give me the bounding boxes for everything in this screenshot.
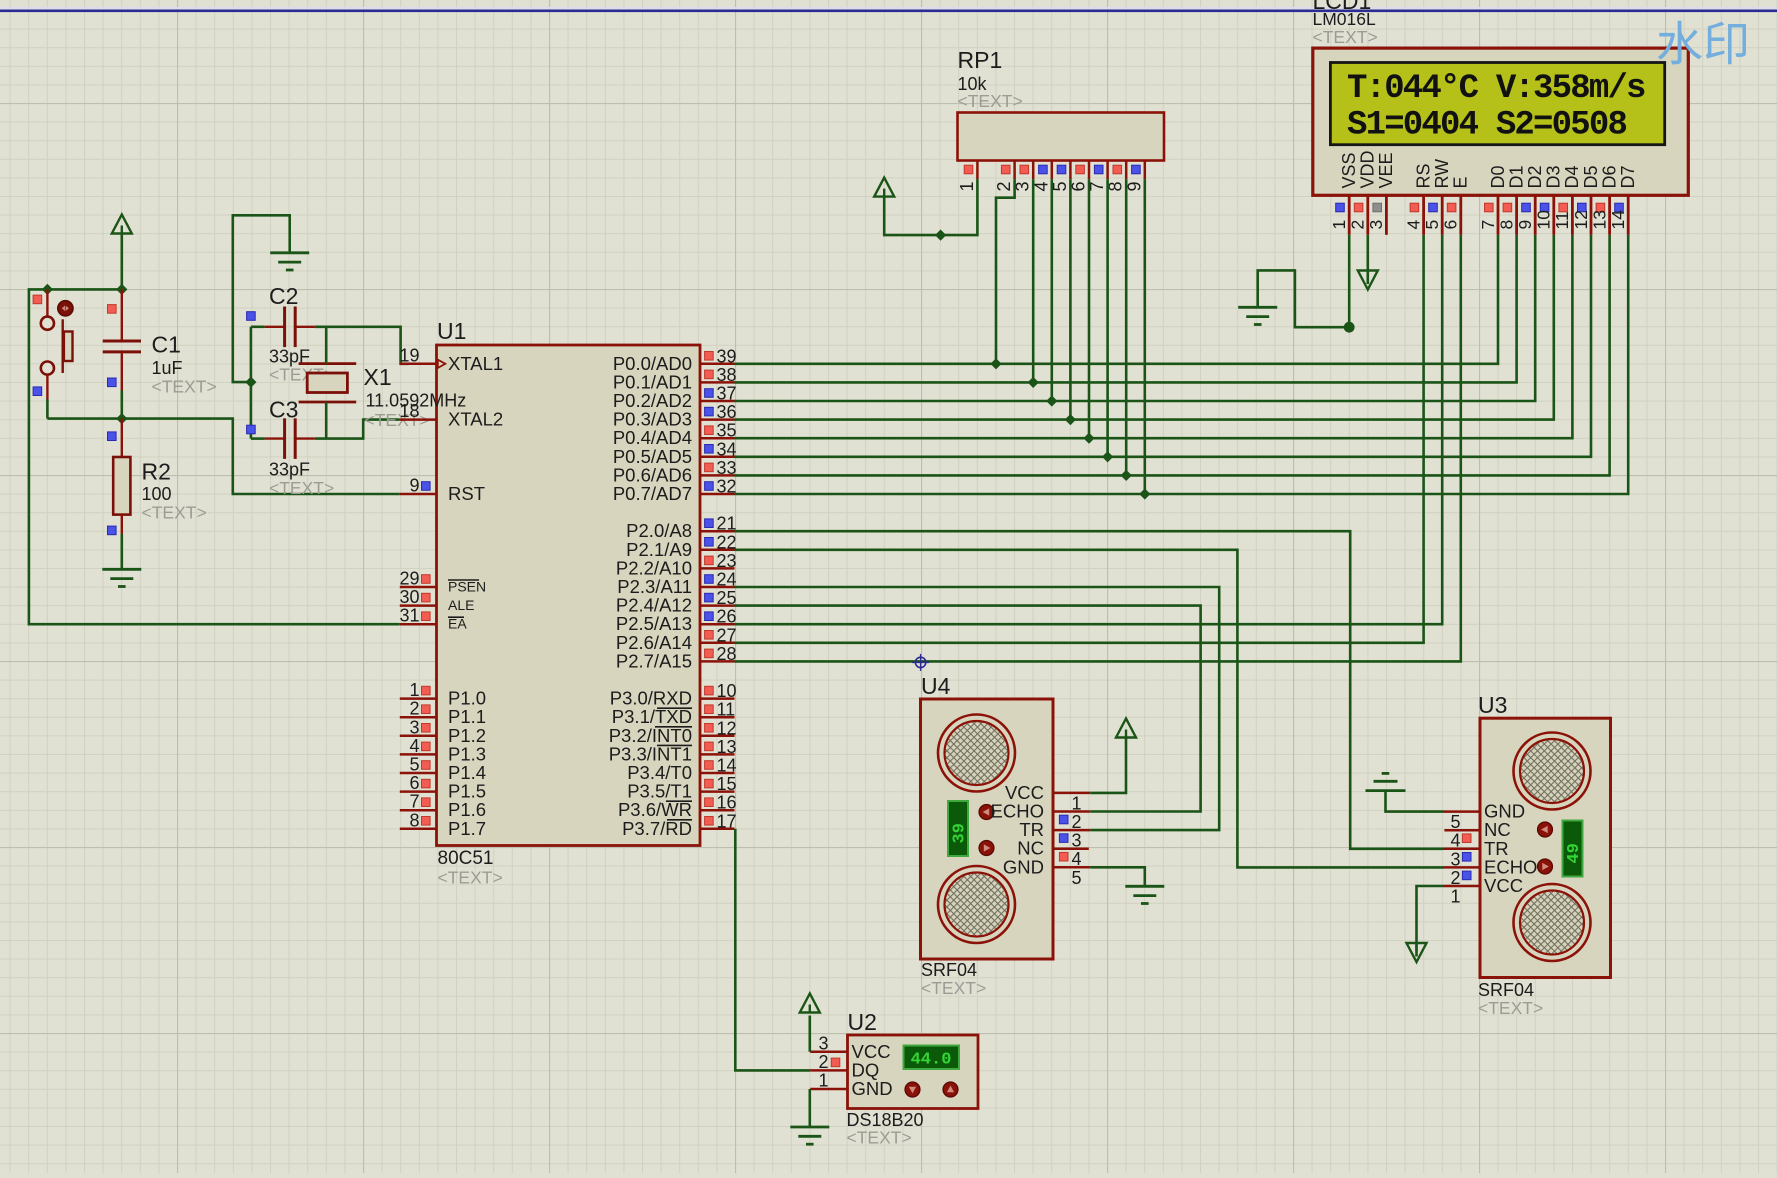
svg-text:1: 1 — [1329, 220, 1349, 230]
svg-text:21: 21 — [717, 514, 737, 534]
svg-text:VCC: VCC — [1484, 875, 1523, 896]
svg-text:X1: X1 — [364, 364, 392, 390]
node junction RP1 pin6 / P0.4 — [1083, 433, 1094, 444]
pin 3 (TR) of U4 — [1019, 819, 1090, 851]
pin 27 (P2.6/A14) of U1 — [616, 625, 737, 653]
origin marker on P2.7 wire — [912, 654, 929, 671]
svg-text:35: 35 — [717, 421, 737, 441]
svg-text:2: 2 — [818, 1052, 828, 1072]
wire RP1 pin8 to P0.6 — [1125, 179, 1128, 475]
wire ground loop (C2/C3 to ground) — [233, 215, 290, 382]
power terminal VCC (top-left) — [112, 215, 132, 234]
svg-text:13: 13 — [1589, 210, 1609, 229]
wire U4 GND to ground — [1090, 867, 1145, 886]
svg-text:VDD: VDD — [1358, 150, 1378, 188]
node junction on VCC wire — [935, 230, 946, 241]
svg-text:1: 1 — [1450, 887, 1460, 907]
svg-text:31: 31 — [399, 606, 419, 626]
pin 9 (RST) of U1 — [400, 476, 485, 505]
pin 1 (P1.0) of U1 — [400, 680, 486, 709]
pin 33 (P0.6/AD6) of U1 — [613, 458, 737, 486]
power terminal VCC (U4) — [1116, 719, 1136, 738]
node junction RP1 pin8 / P0.6 — [1121, 470, 1132, 481]
microcontroller U1 (80C51) body — [437, 345, 701, 846]
wire P0.5 to LCD D5 — [735, 235, 1592, 457]
pin 1 (VCC) of U3 — [1443, 875, 1523, 907]
svg-text:11: 11 — [717, 700, 736, 720]
wire C2 right to XTAL1 — [315, 327, 408, 364]
svg-text:GND: GND — [852, 1078, 893, 1099]
wire P0.4 to LCD D4 — [735, 235, 1573, 438]
pin 5 (GND) of U3 — [1443, 801, 1525, 833]
wire P2.5 to LCD RW — [735, 235, 1443, 624]
svg-text:RP1: RP1 — [958, 47, 1003, 73]
U2 adjust button down — [905, 1082, 920, 1097]
svg-text:RST: RST — [448, 483, 485, 504]
node junction RST rail — [116, 413, 127, 424]
svg-text:1: 1 — [409, 680, 419, 700]
svg-text:15: 15 — [717, 774, 737, 794]
svg-text:8: 8 — [1496, 220, 1516, 230]
wire P2.6 to LCD RS — [735, 235, 1424, 643]
svg-text:XTAL2: XTAL2 — [448, 409, 503, 430]
svg-text:17: 17 — [717, 811, 737, 831]
power terminal VCC (U3, pointing down) — [1407, 943, 1427, 962]
svg-text:16: 16 — [717, 793, 737, 813]
svg-text:3: 3 — [1366, 220, 1386, 230]
pin 6 (E) of LCD1 — [1441, 176, 1471, 234]
pin 21 (P2.0/A8) of U1 — [626, 514, 736, 542]
pin 4 (RS) of LCD1 — [1403, 163, 1433, 234]
pin 10 (D3) of LCD1 — [1534, 165, 1564, 234]
svg-text:12: 12 — [1571, 210, 1591, 229]
pin state square R2 bottom — [108, 526, 117, 535]
svg-text:D0: D0 — [1488, 165, 1508, 188]
pin 17 (P3.7/RD) of U1 — [622, 811, 736, 839]
ground (U2) — [790, 1127, 829, 1144]
pin 1 (GND) of U2 — [810, 1071, 892, 1100]
pin 28 (P2.7/A15) of U1 — [616, 644, 737, 672]
pin 26 (P2.5/A13) of U1 — [616, 607, 737, 635]
U3 distance display 49 — [1563, 821, 1585, 877]
pin 3 (VEE) of LCD1 — [1366, 152, 1396, 234]
node junction RP1 pin3 / P0.1 — [1028, 377, 1039, 388]
svg-text:P1.7: P1.7 — [448, 818, 486, 839]
svg-text:D5: D5 — [1581, 165, 1601, 188]
svg-text:44.0: 44.0 — [911, 1051, 952, 1070]
svg-text:<TEXT>: <TEXT> — [438, 868, 503, 888]
capacitor C1 — [103, 289, 141, 390]
LCD screen — [1330, 63, 1664, 145]
svg-text:GND: GND — [1003, 856, 1044, 877]
pin 25 (P2.4/A12) of U1 — [616, 588, 737, 616]
pin 4 (NC) of U4 — [1017, 838, 1089, 870]
wire P0.1 to LCD D1 — [735, 235, 1517, 383]
svg-text:6: 6 — [1441, 220, 1461, 230]
svg-text:5: 5 — [1072, 868, 1082, 888]
svg-text:9: 9 — [409, 476, 419, 496]
svg-text:R2: R2 — [142, 459, 171, 485]
pin 2 (ECHO) of U4 — [991, 801, 1091, 833]
svg-text:D3: D3 — [1544, 165, 1564, 188]
wire P2.3 to U4 TR — [735, 587, 1220, 830]
pin 11 (D4) of LCD1 — [1552, 165, 1582, 234]
svg-text:32: 32 — [717, 477, 737, 497]
pin 30 (ALE) of U1 — [399, 587, 474, 613]
wire U3 VCC to power — [1417, 886, 1444, 957]
wire P0.0 to LCD D0 — [735, 235, 1499, 364]
resistor R2 — [113, 419, 130, 534]
svg-text:4: 4 — [1403, 220, 1423, 230]
pin 4 (NC) of U3 — [1444, 819, 1510, 851]
wire U2 VCC to power — [808, 1016, 811, 1052]
pin state square C3 left — [247, 425, 256, 434]
svg-text:2: 2 — [409, 699, 419, 719]
wire P0.7 to LCD D7 — [735, 235, 1629, 494]
capacitor C3 — [265, 418, 315, 459]
wire P2.1 to U3 ECHO — [735, 550, 1444, 868]
U4 adjust button up — [979, 805, 994, 820]
svg-text:D6: D6 — [1599, 165, 1619, 188]
svg-text:U2: U2 — [848, 1009, 877, 1035]
svg-text:E: E — [1451, 176, 1471, 188]
svg-text:36: 36 — [717, 402, 737, 422]
svg-text:P2.7/A15: P2.7/A15 — [616, 650, 692, 671]
pin 3 of RP1 — [1013, 161, 1034, 192]
pin 22 (P2.1/A9) of U1 — [626, 532, 736, 560]
svg-text:33pF: 33pF — [269, 460, 310, 480]
node junction RP1 pin2 / P0.0 — [990, 358, 1001, 369]
wire RP1 pin6 to P0.4 — [1088, 179, 1091, 438]
temperature sensor U2 (DS18B20) body — [848, 1035, 979, 1109]
pin 16 (P3.6/WR) of U1 — [618, 793, 737, 821]
pin 34 (P0.5/AD5) of U1 — [613, 439, 737, 467]
pin state square button bottom — [33, 387, 42, 396]
node junction RP1 pin7 / P0.5 — [1102, 451, 1113, 462]
svg-text:23: 23 — [717, 551, 737, 571]
svg-text:9: 9 — [1515, 220, 1535, 230]
svg-text:SRF04: SRF04 — [1478, 980, 1534, 1000]
power terminal VCC (RP1) — [874, 178, 894, 197]
ground (U4) — [1125, 886, 1164, 903]
pin 31 (EA) of U1 — [399, 606, 467, 632]
pin 8 of RP1 — [1106, 161, 1127, 192]
svg-text:39: 39 — [951, 823, 970, 843]
pin state square C1 bottom — [108, 378, 117, 387]
wire crystal top to C2 wire — [325, 327, 328, 364]
pin 2 (VDD) of LCD1 — [1348, 150, 1378, 234]
ground (crystal caps) — [270, 253, 309, 270]
wire VCC rail to button and EA — [29, 289, 400, 624]
svg-text:37: 37 — [717, 384, 737, 404]
power terminal VCC (U2) — [800, 994, 820, 1013]
pin 8 (P1.7) of U1 — [400, 810, 486, 839]
wire C2 left to rail — [251, 325, 265, 328]
svg-text:P3.7/RD: P3.7/RD — [622, 818, 692, 839]
wire U2 GND to ground — [808, 1089, 811, 1127]
wire P0.3 to LCD D3 — [735, 235, 1554, 420]
svg-text:3: 3 — [818, 1033, 828, 1053]
wire LCD VSS to ground — [1258, 235, 1350, 327]
node junction on VSS wire — [1344, 322, 1355, 333]
pin 9 of RP1 — [1124, 161, 1145, 192]
U3 adjust button down — [1538, 859, 1553, 874]
ground (LCD VSS) — [1238, 307, 1277, 324]
svg-text:12: 12 — [717, 718, 737, 738]
U4 transducer top — [938, 715, 1015, 792]
pin 15 (P3.5/T1) of U1 — [627, 774, 736, 802]
svg-text:1uF: 1uF — [152, 358, 183, 378]
pin 39 (P0.0/AD0) of U1 — [613, 346, 737, 374]
pin 29 (PSEN) of U1 — [399, 569, 486, 595]
svg-text:<TEXT>: <TEXT> — [269, 478, 334, 498]
sheet border (top edge of schematic page) — [0, 7, 1777, 12]
pin 7 of RP1 — [1087, 161, 1108, 192]
svg-text:<TEXT>: <TEXT> — [1313, 27, 1378, 47]
node junction VCC/C1 top — [116, 284, 127, 295]
svg-text:RS: RS — [1413, 163, 1433, 188]
pin 2 of RP1 — [994, 161, 1015, 192]
resistor pack RP1 body — [958, 113, 1165, 161]
wire P2.7 to LCD E — [735, 235, 1461, 662]
wire P0.6 to LCD D6 — [735, 235, 1610, 476]
U3 adjust button up — [1538, 822, 1553, 837]
wire C3 left to rail — [251, 437, 265, 440]
svg-text:U3: U3 — [1478, 692, 1507, 718]
U4 adjust button down — [979, 841, 994, 856]
wire R2 to ground — [121, 534, 124, 569]
wire U3 GND to ground — [1386, 791, 1444, 812]
svg-text:2: 2 — [994, 181, 1014, 191]
wire RP1 pin1 to VCC — [884, 179, 977, 235]
pin 6 of RP1 — [1069, 161, 1090, 192]
svg-text:18: 18 — [399, 401, 419, 421]
svg-text:22: 22 — [717, 532, 737, 552]
pin state square button top — [33, 295, 42, 304]
wire button bottom to RST rail — [46, 399, 49, 419]
wire RP1 pin4 to P0.2 — [1051, 179, 1054, 401]
svg-text:29: 29 — [399, 569, 419, 589]
wire P3.7 to U2 DQ — [735, 829, 810, 1071]
wire P2.4 to U4 ECHO — [735, 606, 1201, 812]
svg-text:24: 24 — [717, 570, 737, 590]
svg-text:U1: U1 — [437, 318, 466, 344]
pin 23 (P2.2/A10) of U1 — [616, 551, 737, 579]
pin 13 (D6) of LCD1 — [1589, 165, 1619, 234]
svg-text:D7: D7 — [1618, 165, 1638, 188]
pin 19 (XTAL1) of U1 — [399, 345, 503, 374]
pin 8 (D1) of LCD1 — [1496, 165, 1526, 234]
U4 distance display 39 — [948, 801, 970, 856]
svg-text:LM016L: LM016L — [1313, 9, 1377, 29]
svg-text:10: 10 — [717, 681, 737, 701]
svg-text:25: 25 — [717, 588, 737, 608]
pin 32 (P0.7/AD7) of U1 — [613, 477, 737, 505]
pin 2 (P1.1) of U1 — [400, 699, 486, 728]
push button SW (reset) — [41, 289, 73, 399]
svg-text:C1: C1 — [152, 332, 181, 358]
ultrasonic sensor U3 (SRF04) body — [1480, 718, 1611, 977]
pin 1 of RP1 — [957, 161, 978, 192]
svg-text:10: 10 — [1534, 210, 1554, 230]
pin 4 (P1.3) of U1 — [400, 736, 486, 765]
pin 35 (P0.4/AD4) of U1 — [613, 421, 737, 449]
svg-text:XTAL1: XTAL1 — [448, 353, 503, 374]
pin 18 (XTAL2) of U1 — [399, 401, 503, 430]
svg-text:SRF04: SRF04 — [921, 960, 977, 980]
wire U4 VCC to power — [1090, 738, 1126, 793]
U3 transducer bottom — [1514, 884, 1591, 961]
power terminal (LCD VDD, pointing down) — [1358, 271, 1378, 290]
U4 transducer bottom — [938, 866, 1015, 943]
wire C2/C3 left rail — [250, 327, 253, 439]
svg-text:<TEXT>: <TEXT> — [142, 503, 207, 523]
pin 1 (VSS) of LCD1 — [1329, 152, 1359, 234]
pin 9 (D2) of LCD1 — [1515, 165, 1545, 234]
wire RP1 pin2 to P0.0 — [996, 179, 1015, 364]
pin 4 of RP1 — [1031, 161, 1052, 192]
LCD display LCD1 body — [1313, 48, 1689, 195]
svg-text:80C51: 80C51 — [438, 848, 494, 869]
svg-text:VSS: VSS — [1339, 152, 1359, 188]
svg-text:<TEXT>: <TEXT> — [1478, 998, 1543, 1018]
wire RP1 pin9 to P0.7 — [1144, 179, 1147, 494]
svg-text:26: 26 — [717, 607, 737, 627]
svg-text:<TEXT>: <TEXT> — [847, 1128, 912, 1148]
wire RP1 pin7 to P0.5 — [1106, 179, 1109, 457]
U2 adjust button up — [943, 1082, 958, 1097]
svg-text:S1=0404 S2=0508: S1=0404 S2=0508 — [1347, 106, 1626, 144]
svg-text:7: 7 — [409, 792, 419, 812]
pin 12 (D5) of LCD1 — [1571, 165, 1601, 234]
svg-text:3: 3 — [409, 717, 419, 737]
svg-text:D4: D4 — [1562, 165, 1582, 188]
svg-text:34: 34 — [717, 439, 737, 459]
pin state square C1 top — [108, 305, 117, 314]
svg-text:14: 14 — [1608, 210, 1628, 230]
wire P2.0 to U3 TR — [735, 531, 1444, 849]
svg-text:EA: EA — [448, 616, 467, 632]
pin 5 of RP1 — [1050, 161, 1071, 192]
svg-text:2: 2 — [1348, 220, 1368, 230]
svg-text:D2: D2 — [1525, 165, 1545, 188]
svg-text:D1: D1 — [1506, 165, 1526, 188]
node junction RP1 pin4 / P0.2 — [1046, 395, 1057, 406]
pin 11 (P3.1/TXD) of U1 — [612, 700, 735, 728]
svg-text:14: 14 — [717, 756, 737, 776]
svg-text:RW: RW — [1432, 159, 1452, 189]
pin 37 (P0.2/AD2) of U1 — [613, 384, 737, 412]
svg-text:19: 19 — [399, 345, 419, 365]
pin 7 (P1.6) of U1 — [400, 792, 486, 821]
pin 36 (P0.3/AD3) of U1 — [613, 402, 737, 430]
pin 6 (P1.5) of U1 — [400, 773, 486, 802]
svg-text:PSEN: PSEN — [448, 579, 486, 595]
wire RST net — [47, 419, 399, 494]
svg-text:P0.7/AD7: P0.7/AD7 — [613, 483, 692, 504]
U3 transducer top — [1514, 733, 1591, 810]
wire C1 bottom to RST rail — [121, 391, 124, 419]
pin 5 (P1.4) of U1 — [400, 755, 486, 784]
pin state square C2 left — [247, 312, 256, 321]
crystal X1 — [299, 364, 357, 402]
capacitor C2 — [265, 307, 315, 348]
ultrasonic sensor U4 (SRF04) body — [921, 699, 1054, 959]
ground (U3, inverted) — [1366, 773, 1406, 790]
pin 1 (VCC) of U4 — [1005, 782, 1090, 814]
pin 13 (P3.3/INT1) of U1 — [609, 737, 737, 765]
pin 3 (VCC) of U2 — [810, 1033, 890, 1062]
svg-text:100: 100 — [142, 484, 172, 504]
svg-text:7: 7 — [1478, 220, 1498, 230]
svg-text:5: 5 — [1422, 220, 1442, 230]
svg-text:VEE: VEE — [1376, 152, 1396, 188]
svg-text:<TEXT>: <TEXT> — [921, 978, 986, 998]
pin 5 (GND) of U4 — [1003, 856, 1090, 888]
svg-text:C2: C2 — [269, 283, 298, 309]
pin 3 (P1.2) of U1 — [400, 717, 486, 746]
svg-text:11: 11 — [1552, 211, 1572, 229]
wire C3 right to XTAL2 — [315, 420, 400, 439]
svg-text:38: 38 — [717, 365, 737, 385]
node junction RP1 pin9 / P0.7 — [1139, 488, 1150, 499]
svg-text:1: 1 — [957, 181, 977, 191]
svg-text:27: 27 — [717, 625, 737, 645]
pin 5 (RW) of LCD1 — [1422, 159, 1452, 235]
wire P0.2 to LCD D2 — [735, 235, 1536, 401]
svg-text:1: 1 — [818, 1071, 828, 1091]
pin 2 (ECHO) of U3 — [1443, 856, 1537, 888]
svg-text:28: 28 — [717, 644, 737, 664]
wire RP1 pin3 to P0.1 — [1032, 179, 1035, 382]
svg-text:30: 30 — [399, 587, 419, 607]
svg-text:U4: U4 — [921, 673, 951, 699]
svg-text:8: 8 — [409, 810, 419, 830]
svg-text:5: 5 — [409, 755, 419, 775]
pin state square R2 top — [108, 432, 117, 441]
svg-text:C3: C3 — [269, 397, 298, 423]
svg-text:13: 13 — [717, 737, 737, 757]
wire crystal bottom to C3 wire — [325, 402, 328, 439]
node junction ground loop / cap rail — [245, 377, 256, 388]
node junction RP1 pin5 / P0.3 — [1065, 414, 1076, 425]
node junction VCC/button top — [42, 284, 53, 295]
U2 temperature display 44.0 — [904, 1046, 960, 1070]
pin 2 (DQ) of U2 — [810, 1052, 879, 1081]
svg-text:39: 39 — [717, 346, 737, 366]
svg-text:6: 6 — [409, 773, 419, 793]
wire VCC arrow to junction — [121, 234, 124, 290]
svg-text:33: 33 — [717, 458, 737, 478]
ground (below R2) — [102, 569, 141, 586]
pin 14 (P3.4/T0) of U1 — [627, 756, 736, 784]
pin 24 (P2.3/A11) of U1 — [617, 570, 736, 598]
pin 7 (D0) of LCD1 — [1478, 165, 1508, 234]
svg-text:ALE: ALE — [448, 597, 474, 613]
wire RP1 pin5 to P0.3 — [1069, 179, 1072, 420]
svg-text:水印: 水印 — [1656, 18, 1750, 71]
svg-text:T:044°C V:358m/s: T:044°C V:358m/s — [1347, 70, 1645, 108]
pin 3 (TR) of U3 — [1443, 838, 1509, 870]
pin 14 (D7) of LCD1 — [1608, 165, 1638, 234]
svg-text:49: 49 — [1565, 843, 1584, 863]
wire LCD VDD to power — [1367, 235, 1370, 284]
pin 12 (P3.2/INT0) of U1 — [609, 718, 737, 746]
svg-text:<TEXT>: <TEXT> — [958, 91, 1023, 111]
pin 10 (P3.0/RXD) of U1 — [610, 681, 737, 709]
pin 38 (P0.1/AD1) of U1 — [613, 365, 737, 393]
svg-text:<TEXT>: <TEXT> — [152, 377, 217, 397]
